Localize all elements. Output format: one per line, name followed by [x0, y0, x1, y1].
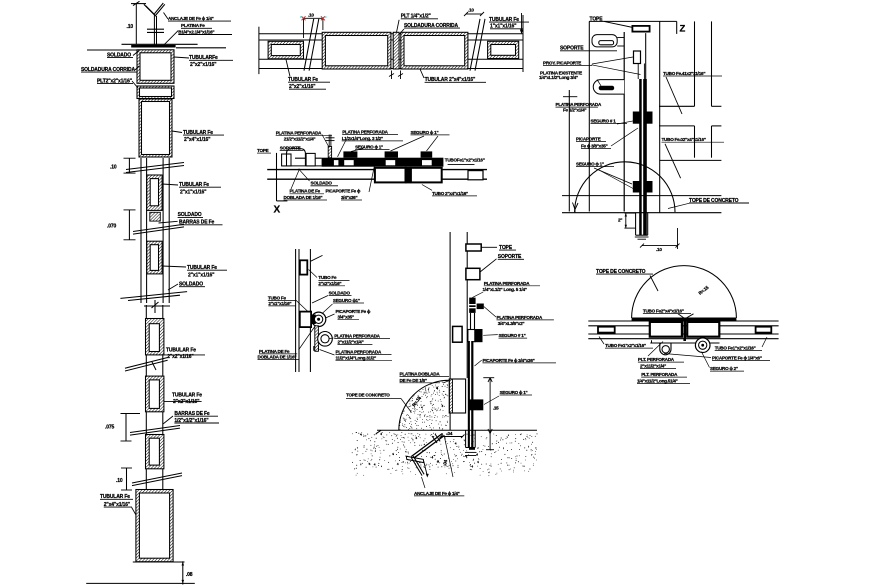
svg-text:TUBO Fe1"x2"x1/16": TUBO Fe1"x2"x1/16" — [715, 345, 756, 350]
svg-text:PLATINA DE Fe: PLATINA DE Fe — [259, 349, 290, 354]
svg-text:PLATINA PERFORADA: PLATINA PERFORADA — [276, 131, 322, 136]
svg-text:DE Fe DE 1/8": DE Fe DE 1/8" — [400, 378, 427, 383]
svg-text:ANCLAJE DE Fe ϕ 1/4": ANCLAJE DE Fe ϕ 1/4" — [168, 16, 214, 21]
svg-text:.10: .10 — [308, 13, 314, 18]
svg-text:PLT. PERFORADA: PLT. PERFORADA — [641, 372, 678, 377]
svg-text:11/2"x1/4"Long.31/2": 11/2"x1/4"Long.31/2" — [336, 356, 377, 361]
svg-text:.08: .08 — [186, 572, 193, 578]
svg-text:3/4"x35": 3/4"x35" — [338, 315, 354, 320]
svg-text:1/4"xL1/2"Long 3/4": 1/4"xL1/2"Long 3/4" — [539, 75, 578, 80]
svg-text:PLT. PERFORADA: PLT. PERFORADA — [638, 357, 675, 362]
svg-text:TUBO Fe.02"x4"x1/16": TUBO Fe.02"x4"x1/16" — [662, 137, 706, 142]
svg-text:.075: .075 — [105, 425, 115, 431]
svg-text:2"x4"x1/16": 2"x4"x1/16" — [184, 137, 211, 143]
svg-text:PROY. PICAPORTE: PROY. PICAPORTE — [543, 61, 581, 66]
svg-text:ANCLAJE DE Fe ϕ 1/4": ANCLAJE DE Fe ϕ 1/4" — [414, 491, 460, 496]
svg-text:Z: Z — [680, 24, 686, 35]
svg-text:TUBO Fe1"x2"x1/16": TUBO Fe1"x2"x1/16" — [605, 343, 646, 348]
svg-text:2"x1"x1/16": 2"x1"x1/16" — [268, 301, 291, 306]
svg-text:TUBO 2"x4"x1/16": TUBO 2"x4"x1/16" — [432, 191, 468, 196]
svg-text:2": 2" — [618, 218, 622, 223]
svg-text:PICAPORTE Fe ϕ: PICAPORTE Fe ϕ — [326, 189, 361, 194]
svg-text:.10: .10 — [110, 165, 117, 171]
svg-text:L1/2x1/4"Long. 3 1/2": L1/2x1/4"Long. 3 1/2" — [342, 136, 383, 141]
svg-text:TOPE: TOPE — [257, 148, 269, 153]
svg-text:SEGURO # 1": SEGURO # 1" — [499, 333, 526, 338]
svg-text:.070: .070 — [107, 224, 117, 230]
svg-text:PLATINA DE Fe: PLATINA DE Fe — [290, 189, 321, 194]
svg-text:TUBO Fe: TUBO Fe — [318, 275, 337, 280]
svg-text:PLATINA PERFORADA: PLATINA PERFORADA — [342, 129, 388, 134]
svg-text:21/2"x11/2"x1/4": 21/2"x11/2"x1/4" — [284, 136, 316, 141]
svg-text:SEGURO ϕ 1": SEGURO ϕ 1" — [500, 390, 528, 395]
svg-text:3/4"xL3/8"x2": 3/4"xL3/8"x2" — [498, 321, 525, 326]
svg-text:SOPORTE: SOPORTE — [280, 145, 301, 150]
svg-text:PLATINA PERFORADA: PLATINA PERFORADA — [336, 349, 382, 354]
svg-text:PICAPORTE Fe ϕ 3/4"x36": PICAPORTE Fe ϕ 3/4"x36" — [483, 358, 535, 363]
svg-text:TUBO Fe2"x4"x1/16": TUBO Fe2"x4"x1/16" — [643, 309, 684, 314]
svg-text:2"x11/2"x1/4": 2"x11/2"x1/4" — [640, 363, 666, 368]
svg-text:.10: .10 — [127, 24, 134, 30]
svg-text:TOPE DE CONCRETO: TOPE DE CONCRETO — [346, 393, 390, 398]
svg-text:SOLDADO: SOLDADO — [311, 181, 333, 186]
svg-text:Fe ϕ 3/8"x35": Fe ϕ 3/8"x35" — [581, 144, 608, 149]
svg-text:2"x11/2"x1/4": 2"x11/2"x1/4" — [338, 339, 364, 344]
svg-text:SEGURO ϕ 1": SEGURO ϕ 1" — [411, 130, 439, 135]
svg-text:2"x2"x1/16": 2"x2"x1/16" — [318, 281, 341, 286]
svg-text:PLATINA PERFORADA: PLATINA PERFORADA — [334, 333, 380, 338]
svg-text:PLATINA Fe: PLATINA Fe — [181, 23, 205, 28]
svg-text:3/4"x36": 3/4"x36" — [341, 195, 357, 200]
svg-text:.10: .10 — [656, 247, 662, 252]
svg-text:SEGURO # 1: SEGURO # 1 — [591, 118, 617, 123]
svg-text:DOBLADA DE 1/16": DOBLADA DE 1/16" — [258, 355, 297, 360]
svg-text:2"x2"x1/16": 2"x2"x1/16" — [190, 62, 217, 68]
svg-text:PLATINA PERFORADA: PLATINA PERFORADA — [556, 102, 602, 107]
svg-text:.15: .15 — [493, 406, 499, 411]
svg-text:PICAPORTE Fe ϕ: PICAPORTE Fe ϕ — [336, 309, 371, 314]
svg-text:TUBOFe1"x2"x1/16": TUBOFe1"x2"x1/16" — [445, 157, 485, 162]
svg-text:SEGURO ϕ 1": SEGURO ϕ 1" — [355, 145, 383, 150]
svg-text:SEGURO ϕ 2": SEGURO ϕ 2" — [710, 366, 738, 371]
svg-text:PICAPORTE Fe ϕ 1/4"x6": PICAPORTE Fe ϕ 1/4"x6" — [712, 356, 762, 361]
svg-text:PLATINA DOBLADA: PLATINA DOBLADA — [400, 371, 441, 376]
svg-text:SOLDADO: SOLDADO — [329, 291, 351, 296]
svg-text:1/4"x11/2"Long.51/4": 1/4"x11/2"Long.51/4" — [637, 379, 678, 384]
svg-text:2"x1"x1/16": 2"x1"x1/16" — [188, 272, 215, 278]
svg-text:B1/4"x2.1/4"x1/16": B1/4"x2.1/4"x1/16" — [178, 29, 214, 34]
svg-text:.10: .10 — [468, 8, 474, 13]
svg-text:PLATINA PERFORADA: PLATINA PERFORADA — [484, 281, 530, 286]
svg-text:Fe 1/2"x1/4": Fe 1/2"x1/4" — [563, 107, 586, 112]
svg-text:TUBO Fe: TUBO Fe — [268, 296, 287, 301]
svg-text:DOBLADA DE 1/16": DOBLADA DE 1/16" — [284, 195, 323, 200]
svg-text:.04: .04 — [447, 431, 453, 436]
svg-text:.10: .10 — [116, 478, 123, 484]
svg-text:X: X — [274, 205, 281, 216]
svg-text:SEGURO ϕ1": SEGURO ϕ1" — [333, 298, 360, 303]
svg-text:TUBULAR Fe: TUBULAR Fe — [166, 348, 196, 354]
svg-text:1/4"xL1/2" Long. 5 1/4": 1/4"xL1/2" Long. 5 1/4" — [483, 287, 527, 292]
svg-text:PLATINA PERFORADA: PLATINA PERFORADA — [497, 315, 543, 320]
svg-text:TUBULAR Fe: TUBULAR Fe — [172, 392, 202, 398]
svg-text:2"x1"x1/16": 2"x1"x1/16" — [180, 189, 207, 195]
svg-text:PICAPORTE: PICAPORTE — [576, 137, 601, 142]
svg-text:SEGURO ϕ 1": SEGURO ϕ 1" — [576, 162, 604, 167]
svg-text:TUBO Fe.41x2"x1/16": TUBO Fe.41x2"x1/16" — [663, 71, 705, 76]
